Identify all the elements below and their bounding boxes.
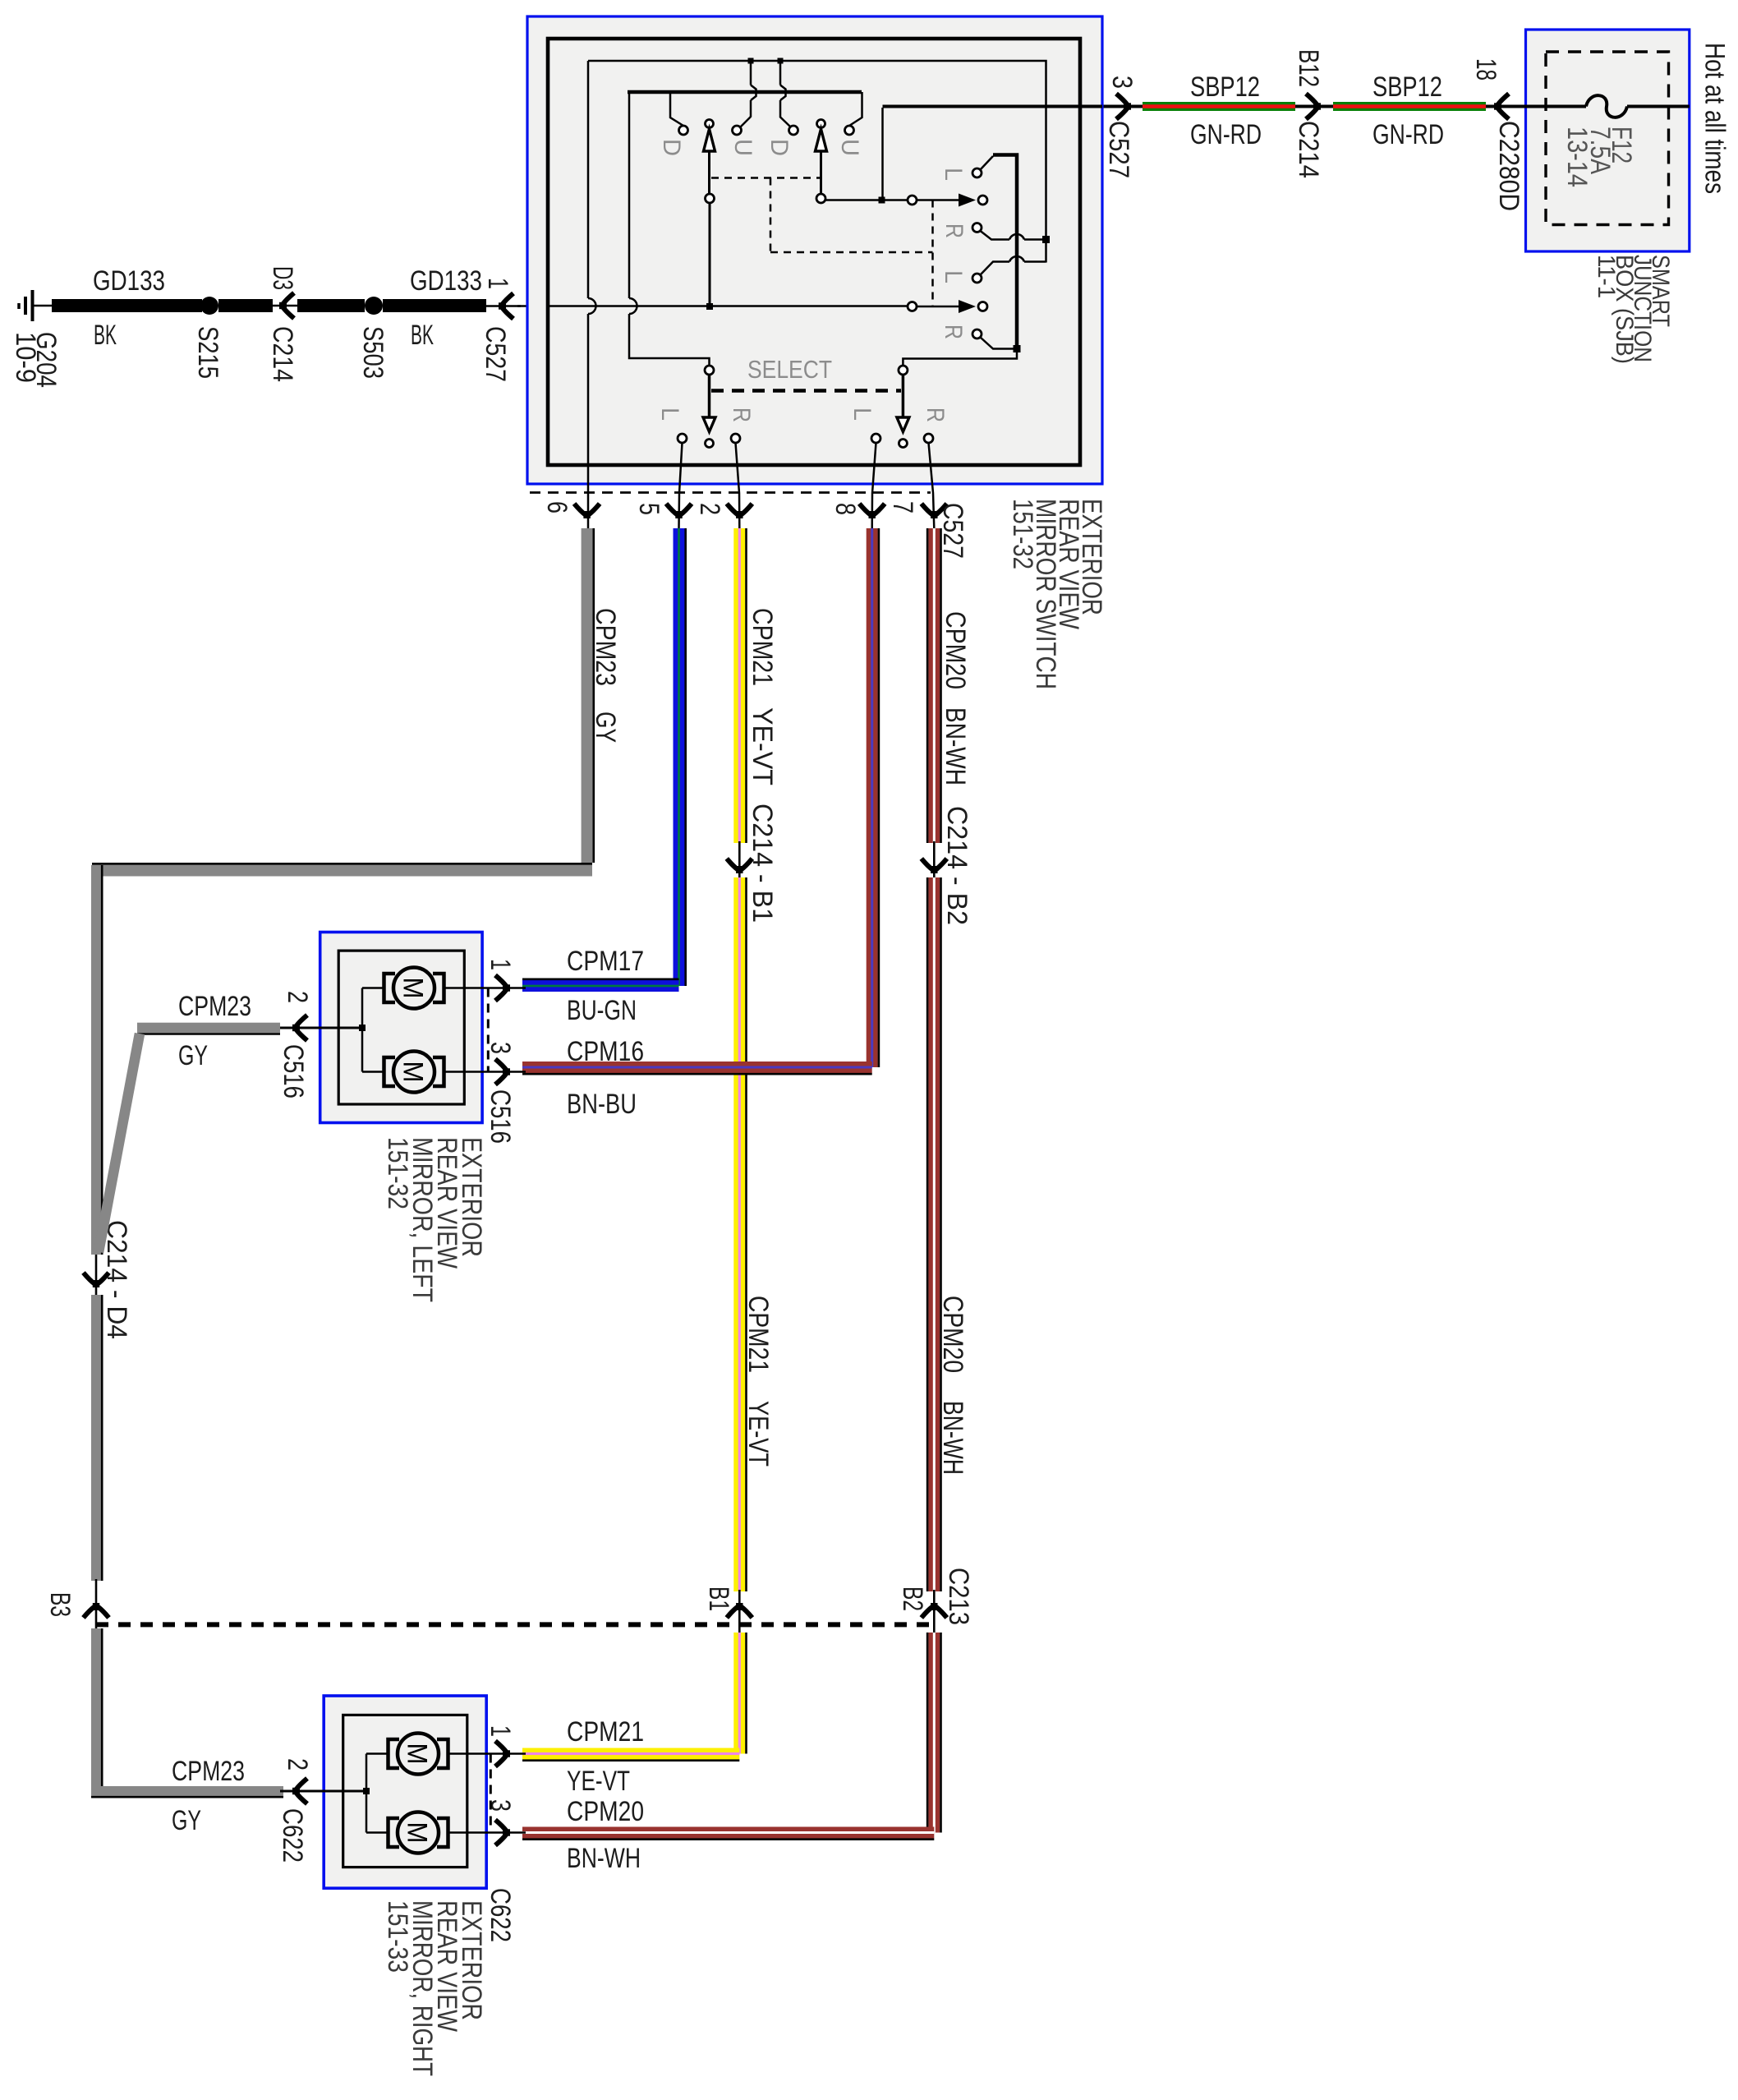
svg-text:GY: GY: [590, 712, 621, 743]
wiper UD-right stem: [820, 150, 822, 195]
svg-text:D: D: [766, 139, 793, 156]
motor mirror-right up/down: [389, 1734, 448, 1775]
svg-text:S503: S503: [357, 326, 389, 379]
svg-text:CPM20: CPM20: [567, 1796, 644, 1827]
wire pin7 exit: [929, 443, 935, 528]
svg-text:C527: C527: [480, 326, 511, 382]
svg-text:151-32: 151-32: [1007, 499, 1038, 569]
wire pin6 vertical upper: [587, 61, 590, 298]
svg-text:BN-WH: BN-WH: [937, 1401, 968, 1475]
contact R select-1 circle: [731, 434, 740, 443]
motor mirror-left up/down: [384, 968, 444, 1009]
wiper LR-2 link: [917, 306, 959, 308]
wire SBP12 GN-RD band 2: [1333, 102, 1486, 111]
wire LR wiper1 line: [825, 199, 908, 201]
select wiper L stem: [708, 375, 711, 417]
junction mirror-right common: [363, 1788, 370, 1794]
svg-text:B12: B12: [1293, 49, 1324, 87]
svg-text:D: D: [658, 139, 685, 156]
svg-text:13-14: 13-14: [1561, 127, 1593, 187]
svg-text:SBP12: SBP12: [1190, 71, 1260, 103]
wiper UD-right pivot circle: [817, 120, 825, 128]
svg-text:1: 1: [485, 1725, 516, 1737]
svg-text:CPM20: CPM20: [937, 1296, 968, 1373]
select wiper R circle: [899, 366, 908, 375]
switch inner case rectangle: [548, 39, 1080, 465]
svg-text:151-32: 151-32: [382, 1137, 413, 1209]
wire CPM20 BN-WH vertical upper: [927, 528, 940, 843]
wire CPM23 GY left vertical bottom: [91, 1628, 102, 1786]
connector C214 B2 arrow: [922, 859, 947, 873]
connector C213 B1 arrow: [727, 1603, 752, 1618]
connector C516 dashed line: [487, 988, 490, 1072]
wiper UD-right triangle: [816, 129, 827, 151]
contact U1 diagonal: [740, 117, 751, 127]
contact R1 hook: [981, 231, 1010, 240]
wire motor1-left to common: [362, 987, 384, 989]
svg-text:C214 - B1: C214 - B1: [747, 804, 778, 923]
wire pin5 exit: [679, 443, 683, 528]
wiper LR-1 link: [917, 199, 959, 201]
select wiper R stem: [902, 375, 905, 417]
wire mirror-left common vertical: [361, 988, 364, 1072]
wire CPM23 GY bottom horizontal: [91, 1786, 283, 1797]
connector pin2 arrow: [727, 504, 752, 518]
wire CPM21 YE-VT vertical upper: [733, 528, 746, 843]
svg-text:L: L: [656, 408, 683, 421]
wire bus drop to select wiper L: [628, 92, 631, 298]
wire CPM21 YE-VT vertical mid: [733, 877, 746, 1591]
wiper LR-1 triangle: [959, 194, 976, 207]
select wiper R tip circle: [899, 440, 907, 448]
select wiper L tip circle: [706, 440, 714, 448]
contact R2 hook: [981, 338, 1018, 349]
wire SBP12 GN-RD main run: [1102, 105, 1528, 108]
connector C214 B12 arrow: [1306, 94, 1321, 119]
wire pin6 vertical lower: [587, 314, 590, 528]
wire power drop inside switch: [881, 108, 884, 200]
wire GD133 BK segment 2: [218, 299, 273, 312]
wire motor1-right to pin1: [448, 1752, 526, 1755]
svg-text:CPM21: CPM21: [747, 608, 778, 686]
connector C213 B2 arrow: [922, 1603, 947, 1618]
wire pin1 into switch: [517, 305, 549, 307]
wiper UD-left stem lower: [709, 203, 711, 306]
wire motor1 to pin1: [444, 987, 526, 989]
contact D2 circle: [789, 126, 798, 135]
motor mirror-right left/right: [389, 1812, 448, 1854]
svg-text:2: 2: [282, 1758, 313, 1771]
SJB internal dashed boundary: [1546, 52, 1669, 225]
wire through C214-B2 gap: [933, 841, 936, 879]
connector C213 dashed line: [96, 1622, 934, 1627]
wire CPM23 GY from pin6: [582, 528, 594, 863]
contact L1 circle: [972, 168, 982, 177]
wire motor1-right to common: [366, 1752, 389, 1755]
connector C214 B1 arrow: [727, 859, 752, 873]
ground G204 symbol: [19, 290, 53, 321]
junction crossover-R2: [1014, 345, 1021, 352]
wiper LR-2 tip circle: [978, 302, 987, 311]
wire L2 to right bus: [1024, 260, 1046, 263]
hop L2 over crossover: [1009, 256, 1024, 261]
wiper UD-left circle node: [706, 194, 715, 203]
junction drop B on top bus: [778, 58, 784, 64]
junction on right bus (R1): [1042, 236, 1050, 243]
svg-text:SELECT: SELECT: [747, 355, 832, 384]
svg-text:R: R: [728, 408, 755, 422]
wire mirror-right common vertical: [366, 1754, 368, 1833]
wire CPM23 GY mirror-left stub: [137, 1023, 280, 1034]
hop pin6 over pin1 line: [588, 298, 596, 314]
junction mirror-left common: [359, 1025, 366, 1031]
svg-text:C516: C516: [485, 1089, 516, 1144]
svg-text:CPM21: CPM21: [567, 1716, 644, 1748]
svg-text:CPM21: CPM21: [743, 1296, 774, 1373]
wire drop B lower: [780, 100, 791, 127]
svg-text:18: 18: [1470, 58, 1501, 81]
wiper LR-1 pivot circle: [908, 196, 917, 205]
dashed link horizontal y307: [770, 251, 933, 254]
wire CPM17 BU-GN horizontal: [522, 979, 679, 992]
wire through C213-B1 gap: [738, 1590, 741, 1634]
svg-text:R: R: [940, 223, 968, 238]
wire motor2-right to pin3: [448, 1831, 526, 1834]
svg-text:B2: B2: [897, 1587, 928, 1611]
svg-text:6: 6: [541, 501, 572, 513]
contact D1 circle: [679, 126, 688, 135]
connector C527 pin3 arrow: [1116, 94, 1131, 119]
wire CPM20 BN-WH vertical mid: [927, 877, 940, 1591]
connector C516 pin2 arrow: [292, 1015, 307, 1041]
svg-text:GY: GY: [172, 1805, 201, 1836]
svg-text:10-9: 10-9: [10, 332, 41, 383]
wire drop A lower: [750, 100, 752, 117]
connector C622 pin1 arrow: [495, 1741, 510, 1766]
svg-text:BU-GN: BU-GN: [567, 995, 637, 1026]
svg-text:CPM23: CPM23: [172, 1756, 245, 1787]
wiper UD-left pivot circle: [706, 120, 714, 128]
contact R select-2 circle: [924, 434, 933, 443]
wire thick bus D1-U2: [628, 90, 862, 94]
wire motor2-right to common: [366, 1831, 389, 1834]
wiper LR-2 pivot circle: [908, 302, 917, 311]
svg-text:GD133: GD133: [410, 265, 482, 297]
svg-text:2: 2: [282, 991, 313, 1003]
exterior rear view mirror right outline: [324, 1696, 486, 1888]
mirror-right inner rectangle: [343, 1715, 467, 1867]
hop bus drop over pin1 line: [629, 298, 637, 314]
contact L2 circle: [972, 274, 982, 283]
svg-text:U: U: [836, 139, 863, 156]
wire drop B upper: [779, 61, 782, 85]
connector pin6 arrow: [574, 504, 600, 518]
wire crossover to select wiper R: [903, 349, 1017, 367]
select wiper L circle: [705, 366, 714, 375]
svg-text:BN-BU: BN-BU: [567, 1089, 637, 1120]
svg-text:7: 7: [887, 501, 918, 513]
svg-text:2: 2: [694, 503, 725, 515]
motor mirror-left left/right: [384, 1052, 444, 1093]
wire pin2 exit: [736, 443, 740, 528]
svg-text:1: 1: [485, 959, 516, 970]
svg-text:YE-VT: YE-VT: [567, 1766, 630, 1797]
connector C516 pin3 arrow: [495, 1059, 510, 1085]
wire pin8 exit: [872, 443, 876, 528]
svg-text:D3: D3: [267, 266, 298, 290]
connector C527 pin1 arrow: [499, 293, 513, 319]
contact L select-2 circle: [871, 434, 880, 443]
svg-text:BN-WH: BN-WH: [940, 707, 971, 785]
connector C213 B3 arrow: [84, 1603, 109, 1618]
wire SBP12 GN-RD band 1: [1143, 102, 1295, 111]
svg-text:SBP12: SBP12: [1372, 71, 1442, 103]
connector C2280D pin18 arrow: [1494, 94, 1509, 119]
svg-text:L: L: [940, 270, 967, 283]
contact L2 hook: [981, 262, 1010, 275]
svg-text:C214: C214: [1293, 121, 1324, 178]
wire CPM20 BN-WH horizontal: [522, 1827, 934, 1840]
connector C214 D3 arrow: [279, 293, 294, 319]
wire CPM16 BN-BU horizontal: [522, 1062, 872, 1074]
connector C527 dashed line: [530, 491, 931, 494]
wiper UD-left triangle: [704, 129, 715, 151]
contact L select-1 circle: [678, 434, 687, 443]
contact U2 circle: [845, 126, 854, 135]
svg-text:C622: C622: [277, 1808, 308, 1863]
connector pin5 arrow: [666, 504, 692, 518]
svg-text:GN-RD: GN-RD: [1190, 119, 1262, 150]
wire CPM23 GY diagonal: [99, 1034, 140, 1252]
wiper LR-2 triangle: [959, 300, 976, 313]
wiper UD-right circle node: [816, 194, 825, 203]
wire bus drop lower: [629, 314, 710, 366]
svg-text:C214 - B2: C214 - B2: [941, 806, 972, 925]
wire CPM20 BN-WH vertical lower: [927, 1633, 940, 1833]
svg-text:CPM23: CPM23: [178, 991, 251, 1022]
svg-text:5: 5: [633, 503, 664, 515]
wire crossover bar thick: [993, 155, 1017, 349]
svg-text:3: 3: [485, 1799, 516, 1812]
contact D1 hook: [670, 92, 683, 126]
wire mirror-left pin2 feed: [280, 1027, 362, 1029]
splice S215: [200, 297, 218, 315]
fuse F12 7.5A: [1586, 95, 1627, 117]
svg-text:C527: C527: [1103, 121, 1134, 178]
svg-text:BN-WH: BN-WH: [567, 1843, 641, 1874]
wire mirror-right pin2 feed: [280, 1790, 366, 1793]
svg-text:1: 1: [482, 278, 513, 289]
svg-text:L: L: [940, 168, 967, 181]
hop drop A jog: [751, 85, 756, 101]
junction power drop on wiper1: [879, 197, 885, 204]
splice S503: [365, 297, 383, 315]
svg-text:YE-VT: YE-VT: [747, 707, 778, 785]
svg-text:CPM16: CPM16: [567, 1036, 644, 1067]
exterior rear view mirror left outline: [320, 933, 482, 1123]
svg-text:CPM20: CPM20: [940, 611, 971, 689]
svg-text:YE-VT: YE-VT: [743, 1401, 774, 1467]
mirror-left inner rectangle: [338, 951, 464, 1104]
contact R2 circle: [972, 329, 982, 338]
connector C516 pin1 arrow: [495, 975, 510, 1001]
wire CPM21 YE-VT vertical lower: [733, 1633, 746, 1754]
svg-text:C214: C214: [267, 326, 298, 382]
svg-text:GY: GY: [178, 1040, 208, 1071]
wire through B3 gap: [95, 1579, 98, 1630]
svg-text:Hot at all times: Hot at all times: [1699, 43, 1731, 194]
wire CPM21 YE-VT horizontal: [522, 1748, 739, 1761]
svg-text:M: M: [402, 1743, 433, 1765]
svg-text:3: 3: [1106, 76, 1138, 89]
wire through D3 gap: [271, 305, 299, 307]
svg-text:M: M: [402, 1822, 433, 1844]
svg-text:C2280D: C2280D: [1493, 121, 1524, 211]
wire CPM16 BN-BU vertical: [867, 528, 879, 1067]
wire hot feed inside SJB: [1627, 105, 1690, 108]
dashed link vertical x938: [770, 178, 772, 253]
hop R1 over crossover: [1009, 234, 1024, 239]
select wiper R triangle: [897, 417, 909, 432]
wire common thin bus top: [588, 61, 1046, 263]
svg-text:M: M: [398, 978, 429, 999]
connector C622 pin2 arrow: [292, 1779, 307, 1804]
wire through C214-D4 gap: [95, 1255, 98, 1296]
connector pin7 arrow: [922, 504, 947, 518]
wire CPM23 GY left vertical upper: [91, 865, 102, 1255]
svg-text:L: L: [848, 408, 876, 421]
svg-text:BK: BK: [411, 320, 434, 351]
dashed select link: [711, 389, 901, 393]
wire through C214-B1 gap: [738, 841, 741, 879]
junction UD-left on pin1 line: [706, 303, 713, 310]
wire power corner to exit: [883, 105, 1103, 108]
exterior rear view mirror switch outline: [527, 16, 1102, 484]
dashed link UD wipers: [711, 177, 820, 179]
contact R1 circle: [972, 223, 982, 233]
svg-text:151-33: 151-33: [382, 1900, 413, 1973]
svg-text:BK: BK: [94, 320, 117, 351]
wire SJB fuse to C2280D: [1509, 105, 1586, 108]
connector pin8 arrow: [859, 504, 885, 518]
wire CPM23 GY left vertical lower: [91, 1295, 102, 1581]
svg-text:B1: B1: [703, 1587, 734, 1611]
wire CPM23 GY top horizontal: [92, 863, 592, 876]
contact U2 hook: [849, 92, 862, 126]
svg-text:CPM23: CPM23: [590, 608, 621, 686]
svg-text:C516: C516: [278, 1044, 309, 1098]
junction drop A on top bus: [748, 58, 754, 64]
svg-text:GN-RD: GN-RD: [1372, 119, 1444, 150]
wire motor2-left to common: [362, 1071, 384, 1073]
wire through C527-1 gap: [486, 305, 521, 307]
smart junction box SJB outline: [1526, 30, 1690, 251]
svg-text:11-1: 11-1: [1593, 255, 1620, 298]
wire drop A upper: [750, 61, 752, 85]
wire R1 to right bus: [1024, 238, 1046, 241]
svg-text:C622: C622: [485, 1888, 516, 1942]
connector C622 pin3 arrow: [495, 1820, 510, 1845]
svg-text:C213: C213: [943, 1568, 974, 1625]
hop drop B jog: [780, 85, 786, 101]
connector C622 dashed line: [490, 1754, 492, 1833]
wire through C213-B2 gap: [933, 1590, 936, 1634]
wire GD133 BK segment 3: [297, 299, 365, 312]
svg-text:R: R: [922, 408, 949, 422]
svg-text:R: R: [940, 325, 967, 339]
wire CPM17 BU-GN vertical: [674, 528, 686, 986]
select wiper L triangle: [703, 417, 715, 432]
contact U1 circle: [733, 126, 742, 135]
contact L1 hook: [981, 156, 994, 170]
wire pin1 line inside switch: [549, 305, 908, 307]
svg-text:M: M: [398, 1062, 429, 1083]
dashed link LR wipers x1135.5: [931, 200, 934, 307]
svg-text:S215: S215: [192, 326, 223, 379]
wire GD133 BK segment 4: [383, 299, 486, 312]
wire GD133 BK segment 1: [52, 299, 202, 312]
svg-text:8: 8: [830, 503, 861, 515]
svg-text:U: U: [729, 139, 756, 156]
connector C214 D4 arrow: [84, 1273, 109, 1287]
wire motor2 to pin3: [444, 1071, 526, 1073]
svg-text:B3: B3: [44, 1592, 76, 1617]
wiper UD-left stem upper: [708, 150, 710, 195]
wiper LR-1 tip circle: [978, 196, 987, 205]
svg-text:CPM17: CPM17: [567, 946, 644, 977]
svg-text:GD133: GD133: [93, 265, 165, 297]
